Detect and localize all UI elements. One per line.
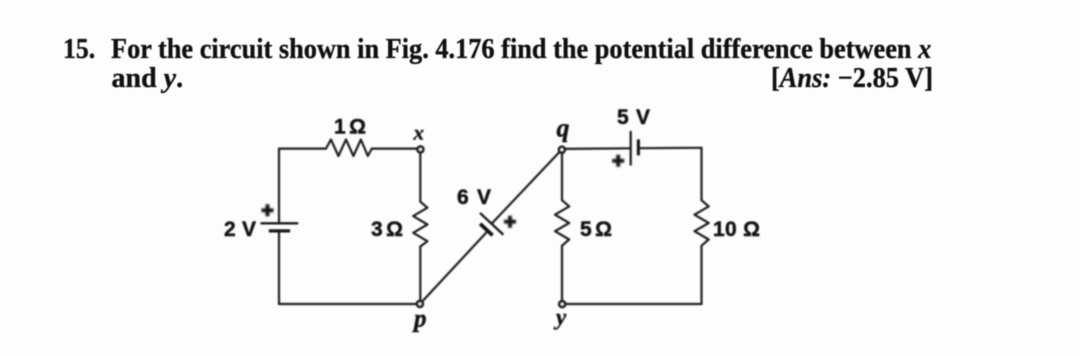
svg-text:y: y (553, 305, 567, 330)
svg-text:6 V: 6 V (457, 186, 491, 209)
svg-text:5 V: 5 V (617, 106, 650, 129)
svg-text:5 Ω: 5 Ω (580, 218, 612, 241)
svg-text:x: x (413, 121, 425, 145)
svg-text:2 V: 2 V (224, 218, 256, 241)
svg-text:1 Ω: 1 Ω (334, 116, 366, 139)
svg-text:p: p (412, 306, 427, 333)
svg-text:3 Ω: 3 Ω (371, 218, 403, 241)
svg-text:q: q (557, 114, 570, 143)
svg-text:10 Ω: 10 Ω (713, 218, 760, 241)
